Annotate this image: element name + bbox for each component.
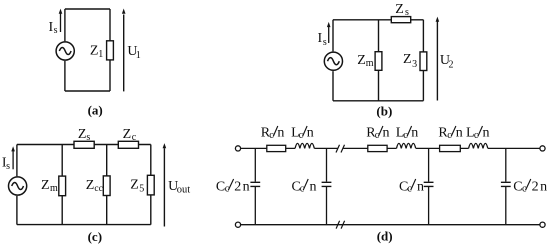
svg-text:(d): (d) xyxy=(377,229,393,244)
svg-text:n: n xyxy=(243,179,250,194)
svg-text:n: n xyxy=(456,125,463,140)
svg-text:(c): (c) xyxy=(88,229,102,244)
svg-text:n: n xyxy=(540,179,547,194)
svg-text:c: c xyxy=(225,184,230,195)
svg-text:Z: Z xyxy=(78,127,87,142)
svg-text:n: n xyxy=(310,179,317,194)
svg-text:c: c xyxy=(132,132,137,143)
svg-text:n: n xyxy=(411,125,418,140)
svg-text:Z: Z xyxy=(86,178,95,193)
svg-text:Z: Z xyxy=(41,178,50,193)
svg-text:1: 1 xyxy=(136,50,141,61)
svg-text:c: c xyxy=(474,130,479,141)
svg-text:2: 2 xyxy=(449,59,454,70)
svg-text:c: c xyxy=(403,130,408,141)
svg-text:s: s xyxy=(54,25,58,36)
svg-text:5: 5 xyxy=(139,184,144,195)
svg-text:n: n xyxy=(483,125,490,140)
svg-text:c: c xyxy=(300,184,305,195)
svg-text:s: s xyxy=(86,132,90,143)
svg-text:1: 1 xyxy=(98,49,103,60)
svg-text:c: c xyxy=(447,130,452,141)
svg-text:c: c xyxy=(299,130,304,141)
svg-text:2: 2 xyxy=(234,179,241,194)
svg-text:I: I xyxy=(318,31,323,46)
svg-text:c: c xyxy=(269,130,274,141)
svg-text:c: c xyxy=(375,130,380,141)
svg-text:Z: Z xyxy=(403,52,412,67)
svg-text:s: s xyxy=(323,37,327,48)
svg-text:m: m xyxy=(50,183,58,194)
svg-text:m: m xyxy=(366,58,374,69)
svg-text:(a): (a) xyxy=(88,102,103,117)
svg-text:c: c xyxy=(407,184,412,195)
svg-text:Z: Z xyxy=(395,2,404,17)
svg-text:2: 2 xyxy=(532,179,539,194)
svg-text:(b): (b) xyxy=(376,103,392,118)
svg-text:3: 3 xyxy=(412,59,417,70)
svg-text:Z: Z xyxy=(123,127,132,142)
svg-text:cc: cc xyxy=(94,184,102,194)
svg-text:out: out xyxy=(177,184,191,195)
svg-text:s: s xyxy=(6,161,10,172)
svg-text:n: n xyxy=(383,125,390,140)
svg-text:n: n xyxy=(417,179,424,194)
svg-text:Z: Z xyxy=(357,53,366,68)
svg-text:Z: Z xyxy=(130,177,139,192)
svg-text:s: s xyxy=(405,7,409,18)
svg-text:n: n xyxy=(277,125,284,140)
svg-text:c: c xyxy=(522,184,527,195)
svg-text:Z: Z xyxy=(90,43,99,58)
svg-text:n: n xyxy=(307,125,314,140)
